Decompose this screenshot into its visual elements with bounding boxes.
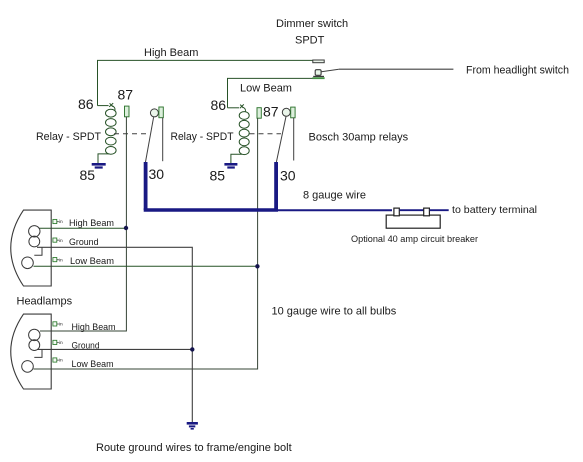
svg-text:in: in (59, 219, 63, 225)
svg-text:85: 85 (80, 167, 96, 183)
relay K1 87a stub (162, 118, 164, 162)
ground at frame/engine bolt (187, 422, 198, 430)
relay K2 switch arm (276, 117, 286, 163)
relay K2 terminal 87 (257, 108, 261, 119)
ground at relay K2 pin 85 (224, 163, 237, 169)
wire 8 gauge battery bus (144, 208, 278, 212)
svg-text:86: 86 (78, 96, 94, 112)
relay K1 pin 85 lead (98, 154, 110, 163)
svg-text:30: 30 (280, 168, 296, 184)
circuit breaker CB1 terminal 2 (424, 208, 430, 216)
svg-text:Dimmer switch: Dimmer switch (276, 18, 348, 30)
relay K2 pin 86 lead (228, 104, 244, 108)
svg-text:30: 30 (149, 166, 165, 182)
svg-text:Low Beam: Low Beam (70, 256, 114, 267)
headlamp 2 body (11, 314, 51, 389)
wire relay K2 87 output vertical (34, 118, 258, 369)
node junction high beam (124, 226, 128, 230)
headlamp 1 body (11, 210, 51, 286)
relay K1 coil (106, 106, 117, 155)
svg-text:Relay - SPDT: Relay - SPDT (36, 131, 101, 143)
node junction low beam (255, 264, 259, 268)
wire lamp1 high beam (39, 227, 126, 229)
svg-text:in: in (59, 358, 63, 364)
svg-text:High Beam: High Beam (69, 218, 114, 229)
svg-text:85: 85 (210, 168, 226, 184)
headlamp 1 filament loop 2 (29, 236, 40, 247)
headlamp 1 terminal icon high beam (53, 219, 63, 225)
headlamp 1 high-beam filament (29, 226, 40, 237)
headlamp 2 low-beam filament (22, 361, 34, 373)
svg-text:Ground: Ground (69, 237, 99, 248)
relay K2 coil (239, 107, 249, 155)
headlamp 1 terminal icon ground (53, 238, 63, 244)
relay K1 common pivot (150, 109, 158, 117)
headlamp 2 terminal icon high beam (53, 322, 63, 328)
svg-text:Low Beam: Low Beam (240, 83, 292, 95)
relay K2 pin 30 feed (blue drop) (274, 162, 278, 210)
circuit breaker CB1 terminal 1 (394, 208, 399, 216)
svg-text:86: 86 (211, 97, 227, 113)
circuit breaker CB1 body (386, 215, 440, 228)
wire lamp2 ground (37, 348, 192, 350)
relay K1 terminal 87 (125, 106, 130, 117)
svg-text:From headlight switch: From headlight switch (466, 65, 569, 77)
relay K2 87a stub (293, 118, 295, 161)
dimmer switch SW1 high-beam contact (313, 60, 324, 63)
wire to headlight switch (339, 68, 454, 70)
headlamp 2 high-beam filament (29, 329, 40, 340)
svg-text:87: 87 (263, 104, 279, 120)
svg-text:Route ground wires to frame/en: Route ground wires to frame/engine bolt (96, 442, 292, 454)
wire lamp1 ground (37, 247, 192, 422)
svg-text:SPDT: SPDT (295, 35, 325, 47)
relay K2 dashed actuator link (250, 133, 282, 135)
svg-text:Low Beam: Low Beam (72, 359, 114, 370)
relay K1 switch arm (145, 117, 153, 162)
svg-text:in: in (59, 257, 63, 263)
svg-text:87: 87 (118, 86, 134, 102)
headlamp 2 terminal icon low beam (53, 358, 63, 364)
headlamp 2 terminal icon ground (53, 340, 63, 346)
relay K1 pin 86 lead (98, 103, 114, 107)
wire lamp1 low beam (34, 265, 258, 267)
svg-text:Bosch 30amp relays: Bosch 30amp relays (309, 132, 409, 144)
wire breaker link (400, 209, 424, 211)
dimmer switch SW1 arm (321, 69, 339, 72)
node junction ground (190, 347, 194, 351)
svg-text:Optional 40 amp circuit breake: Optional 40 amp circuit breaker (351, 234, 478, 245)
ground at relay K1 pin 85 (92, 163, 106, 169)
relay K2 terminal 87a (291, 107, 295, 118)
headlamp 1 low-beam filament (22, 257, 34, 269)
svg-text:in: in (59, 340, 63, 346)
svg-text:High Beam: High Beam (144, 47, 198, 59)
svg-text:to battery terminal: to battery terminal (452, 204, 537, 216)
wire High Beam horizontal from dimmer to relay K1 (98, 60, 323, 105)
svg-text:Headlamps: Headlamps (17, 296, 73, 308)
relay K2 pin 85 lead (231, 154, 242, 163)
svg-text:Relay - SPDT: Relay - SPDT (171, 131, 234, 143)
relay K1 terminal 87a (159, 107, 163, 118)
headlamp 1 ground step (34, 247, 42, 255)
svg-text:Ground: Ground (72, 340, 100, 351)
svg-text:in: in (59, 322, 63, 328)
dimmer switch SW1 low-beam contact (313, 76, 324, 77)
headlamp 2 filament loop 2 (29, 340, 40, 351)
wire breaker to battery (430, 209, 449, 211)
svg-text:in: in (59, 238, 63, 244)
wire Low Beam horizontal from dimmer to relay K2 (228, 78, 314, 107)
relay K1 dashed actuator link (114, 133, 148, 135)
svg-text:High Beam: High Beam (72, 322, 116, 333)
headlamp 2 ground step (34, 349, 42, 357)
wire relay K1 87 output vertical (40, 117, 126, 331)
wire bus to breaker (278, 209, 392, 211)
svg-text:10 gauge wire to all bulbs: 10 gauge wire to all bulbs (272, 306, 397, 318)
headlamp 1 terminal icon low beam (53, 257, 63, 263)
dimmer switch SW1 pivot (315, 70, 321, 76)
svg-text:8 gauge wire: 8 gauge wire (303, 190, 366, 202)
relay K1 pin 30 feed (blue drop) (144, 162, 148, 210)
relay K2 common pivot (282, 108, 290, 116)
